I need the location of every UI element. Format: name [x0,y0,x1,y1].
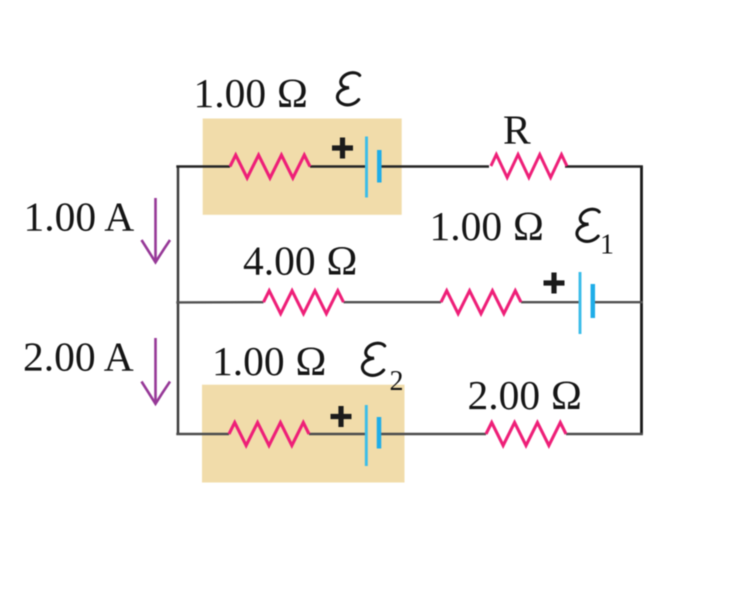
resistor R (top right) [491,155,567,178]
svg-text:2.00 A: 2.00 A [23,334,134,380]
wire: right vertical [640,167,643,435]
battery E (top): long plate [365,137,368,198]
battery E1 (middle): short plate [591,284,596,318]
battery E1 plus sign [544,273,565,294]
svg-text:1.00 Ω: 1.00 Ω [212,338,327,384]
battery E plus sign [332,138,353,159]
resistor 1.00 ohm (top left, inside box) [230,155,310,178]
svg-text:4.00 Ω: 4.00 Ω [243,238,358,284]
resistor 2.00 ohm (bottom right) [486,423,566,446]
battery E1 (middle): long plate [579,272,582,334]
battery E2 (bottom): short plate [377,417,382,449]
label script E2 (bottom emf) [362,343,384,375]
svg-text:1: 1 [600,230,614,261]
battery E (top): short plate [377,150,382,183]
svg-text:1.00 A: 1.00 A [24,194,135,240]
resistor 4.00 ohm (middle left) [264,291,344,314]
svg-text:2.00 Ω: 2.00 Ω [468,372,583,418]
wire: top row segments [176,165,230,168]
battery E2 (bottom): long plate [365,405,368,466]
wire: middle row segments [176,301,263,304]
label script E (top emf) [337,73,359,105]
resistor 1.00 ohm (middle right) [441,291,521,314]
current arrow 1.00 A [142,198,171,262]
svg-text:R: R [503,107,531,153]
wire: bottom row segments [176,433,229,436]
highlight box top (emf E cell) [203,119,402,215]
resistor 1.00 ohm (bottom left, inside box) [229,423,309,446]
current arrow 2.00 A [142,338,171,404]
label script E1 (middle emf) [577,209,599,241]
svg-text:1.00 Ω: 1.00 Ω [194,70,309,116]
battery E2 plus sign [331,406,352,427]
wire: left vertical [177,167,180,435]
svg-text:2: 2 [390,366,404,397]
svg-text:1.00 Ω: 1.00 Ω [430,203,545,249]
highlight box bottom (emf E2 cell) [202,385,405,483]
